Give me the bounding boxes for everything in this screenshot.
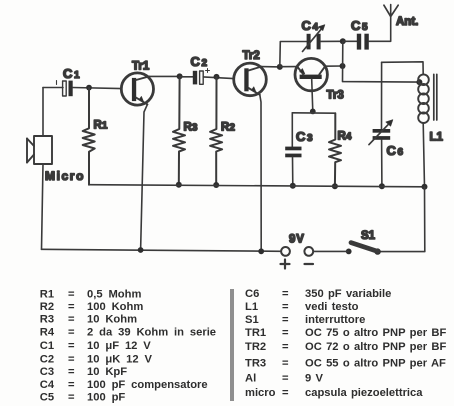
svg-text:=: = — [68, 366, 75, 378]
svg-text:=: = — [282, 387, 289, 399]
resistor R2 — [210, 77, 222, 185]
node TR3 base / C3 R4 — [310, 109, 316, 115]
svg-text:=: = — [282, 288, 289, 300]
svg-text:TR3: TR3 — [245, 358, 266, 370]
svg-text:=: = — [68, 340, 75, 352]
svg-text:C6: C6 — [245, 288, 259, 300]
microphone Micro — [27, 136, 52, 164]
svg-text:=: = — [282, 341, 289, 353]
svg-text:R4: R4 — [40, 326, 55, 338]
svg-text:10 Kohm: 10 Kohm — [87, 314, 137, 326]
svg-text:10 μK 12 V: 10 μK 12 V — [87, 354, 153, 366]
svg-text:350 pF variabile: 350 pF variabile — [305, 288, 391, 300]
svg-text:OC 55 o altro PNP per AF: OC 55 o altro PNP per AF — [305, 358, 446, 370]
svg-text:C5: C5 — [40, 392, 54, 404]
transistor TR2 — [234, 63, 267, 96]
junction bus / right vertical — [422, 184, 428, 190]
wire C5 to antenna — [369, 5, 391, 42]
capacitor C2 — [193, 69, 210, 85]
svg-text:9 V: 9 V — [305, 373, 324, 385]
svg-text:L1: L1 — [430, 132, 444, 144]
svg-text:OC 72 o altro PNP per BF: OC 72 o altro PNP per BF — [305, 341, 446, 353]
resistor R4 — [329, 113, 341, 186]
node TR2 collector / C4 / TR3 — [277, 64, 283, 70]
svg-text:R3: R3 — [40, 314, 54, 326]
wire node up to C4 line — [280, 42, 307, 67]
wire node to C2 — [180, 76, 193, 78]
node junction C1/R1 — [86, 85, 92, 91]
svg-text:R2: R2 — [221, 121, 235, 133]
wire C2 to TR2 base — [203, 77, 234, 79]
wire TR1 collector to R3 node — [149, 75, 180, 77]
svg-text:C3: C3 — [296, 129, 313, 144]
wire L1 bottom to bus corner — [423, 123, 424, 187]
svg-text:10 KpF: 10 KpF — [87, 366, 127, 378]
svg-text:100 pF: 100 pF — [87, 392, 125, 404]
svg-text:=: = — [68, 301, 75, 313]
svg-text:vedi testo: vedi testo — [305, 301, 359, 313]
parts list right column — [245, 288, 446, 399]
battery AI 9V — [281, 247, 313, 256]
svg-text:Tr1: Tr1 — [132, 61, 150, 73]
wire C3-R4 top link — [292, 112, 335, 114]
svg-text:micro: micro — [245, 387, 276, 399]
svg-text:=: = — [282, 314, 289, 326]
wire TR2 collector to node — [261, 66, 280, 68]
svg-text:0,5 Mohm: 0,5 Mohm — [87, 288, 141, 300]
svg-text:interruttore: interruttore — [305, 314, 365, 326]
svg-text:C2: C2 — [40, 354, 54, 366]
wire from C1 corner to micro top — [42, 88, 44, 137]
wire C1 to TR1 base — [73, 88, 122, 89]
junction R3 / bus — [176, 182, 182, 188]
svg-text:C4: C4 — [302, 18, 319, 33]
parts list left column — [40, 288, 216, 403]
variable capacitor C4 — [303, 25, 325, 52]
svg-text:R4: R4 — [338, 131, 352, 143]
wire TR2 emitter down — [260, 95, 261, 252]
svg-text:=: = — [68, 392, 75, 404]
node TR3 collector / vertical — [340, 63, 346, 69]
junction TR2 emitter / bottom rail — [258, 248, 264, 254]
node R2 — [214, 74, 220, 80]
svg-text:R2: R2 — [40, 301, 54, 313]
junction C3 / bus — [290, 183, 296, 189]
transistor TR1 — [121, 73, 153, 105]
svg-text:TR2: TR2 — [245, 341, 266, 353]
capacitor C3 — [285, 113, 301, 186]
svg-text:C2: C2 — [191, 54, 208, 69]
svg-text:C4: C4 — [40, 379, 55, 391]
junction C6 / bus — [379, 183, 385, 189]
junction R4 / bus — [332, 183, 338, 189]
node C4/C5/TR3 collector branch — [340, 38, 346, 44]
wire micro bottom to bottom rail — [42, 164, 44, 249]
svg-text:capsula piezoelettrica: capsula piezoelettrica — [305, 387, 423, 399]
junction R2 / bus — [213, 182, 219, 188]
svg-text:=: = — [68, 288, 75, 300]
capacitor C5 — [357, 34, 369, 50]
svg-text:R1: R1 — [40, 288, 54, 300]
minus terminal mark — [305, 263, 314, 265]
node R3/C2 — [177, 73, 183, 79]
resistor R3 — [173, 76, 185, 184]
svg-text:Al: Al — [245, 373, 256, 385]
svg-text:C1: C1 — [40, 340, 54, 352]
svg-text:Tr3: Tr3 — [327, 90, 344, 102]
svg-text:=: = — [68, 314, 75, 326]
ground bus rail — [89, 185, 425, 187]
junction at L1 — [416, 79, 422, 85]
svg-text:C6: C6 — [387, 143, 404, 158]
variable capacitor C6 — [369, 62, 393, 186]
wire C1 left lead — [43, 87, 63, 89]
svg-text:=: = — [282, 373, 289, 385]
wire C6 top to L1 top — [382, 62, 424, 75]
wire node to TR3 emitter — [280, 66, 297, 68]
svg-text:Tr2: Tr2 — [243, 50, 260, 62]
svg-text:10 μF 12 V: 10 μF 12 V — [87, 340, 151, 352]
bottom positive rail — [42, 249, 282, 251]
svg-text:9V: 9V — [289, 234, 305, 246]
svg-text:C3: C3 — [40, 366, 54, 378]
svg-text:=: = — [68, 354, 75, 366]
svg-text:C5: C5 — [351, 18, 368, 33]
capacitor C1 — [57, 81, 73, 97]
svg-text:R1: R1 — [94, 120, 108, 132]
inductor L1 — [418, 74, 429, 123]
svg-text:TR1: TR1 — [245, 327, 266, 339]
core of L1 — [434, 74, 437, 120]
junction TR1 emitter / bottom rail — [138, 247, 144, 253]
svg-text:Ant.: Ant. — [396, 16, 418, 28]
wire battery minus to switch — [313, 250, 349, 252]
wire C4 to C5 node — [321, 40, 343, 42]
svg-text:100 Kohm: 100 Kohm — [87, 301, 143, 313]
divider bar — [230, 289, 234, 401]
wire vertical down and across to L1 tap — [343, 41, 420, 82]
svg-text:S1: S1 — [245, 314, 259, 326]
antenna — [384, 5, 398, 16]
svg-text:OC 75 o altro PNP per BF: OC 75 o altro PNP per BF — [305, 327, 446, 339]
svg-text:=: = — [68, 326, 75, 338]
wire TR3 collector to right vertical — [325, 65, 342, 67]
svg-text:=: = — [282, 358, 289, 370]
svg-text:2 da 39 Kohm in serie: 2 da 39 Kohm in serie — [87, 326, 216, 338]
svg-text:=: = — [282, 327, 289, 339]
wire node to C5 — [343, 40, 357, 42]
svg-text:C1: C1 — [63, 66, 80, 81]
plus terminal mark — [281, 260, 290, 269]
svg-text:100 pF compensatore: 100 pF compensatore — [87, 379, 208, 391]
wire TR3 base down — [312, 79, 313, 111]
svg-text:=: = — [282, 301, 289, 313]
switch S1 — [346, 243, 381, 255]
wire right vertical down to switch — [378, 187, 425, 252]
svg-text:R3: R3 — [184, 121, 198, 133]
svg-text:=: = — [68, 379, 75, 391]
transistor TR3 — [295, 58, 327, 90]
wire TR1 emitter down — [141, 104, 148, 250]
svg-text:S1: S1 — [361, 230, 376, 242]
svg-text:Micro: Micro — [45, 169, 85, 183]
svg-text:L1: L1 — [245, 301, 258, 313]
resistor R1 — [83, 88, 95, 185]
